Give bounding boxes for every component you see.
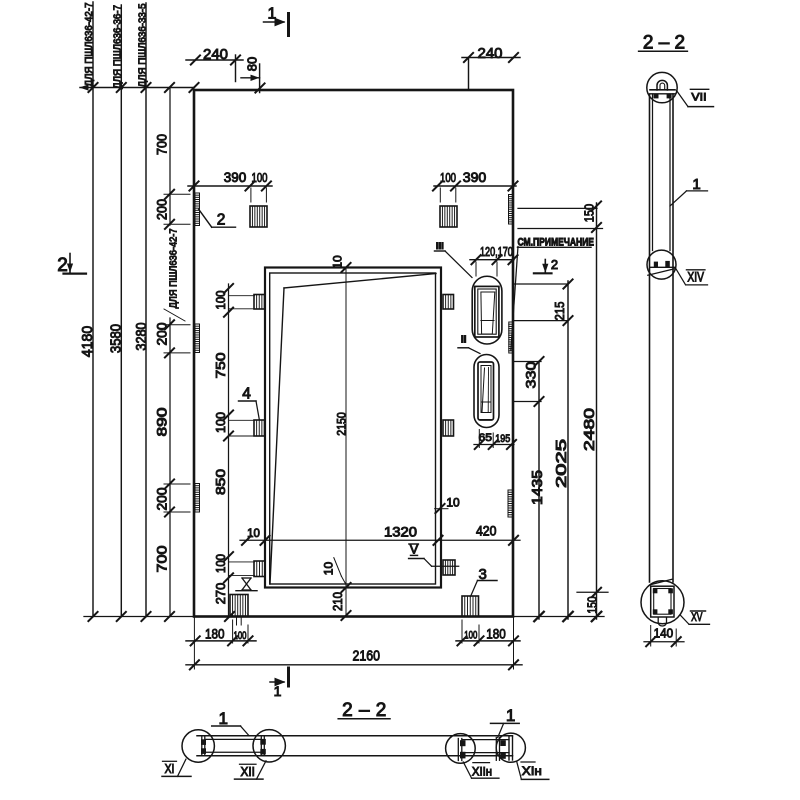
svg-text:390: 390 <box>224 169 247 185</box>
svg-text:330: 330 <box>523 361 539 388</box>
svg-text:65: 65 <box>479 432 493 444</box>
svg-text:140: 140 <box>654 626 674 641</box>
svg-text:240: 240 <box>477 45 502 62</box>
svg-text:120,170: 120,170 <box>480 245 513 259</box>
svg-text:210: 210 <box>330 592 345 611</box>
svg-text:200: 200 <box>155 199 170 220</box>
svg-text:195: 195 <box>495 433 510 445</box>
svg-text:700: 700 <box>155 134 170 155</box>
svg-text:2160: 2160 <box>353 649 381 665</box>
svg-text:1: 1 <box>218 709 227 728</box>
svg-text:200: 200 <box>155 323 170 346</box>
svg-text:4: 4 <box>242 386 251 403</box>
svg-text:10: 10 <box>247 528 260 540</box>
svg-text:2: 2 <box>551 257 558 272</box>
svg-text:XIн: XIн <box>522 764 542 778</box>
svg-text:3580: 3580 <box>109 324 125 353</box>
svg-text:100: 100 <box>234 630 247 642</box>
svg-text:2150: 2150 <box>335 412 349 436</box>
svg-text:XV: XV <box>691 610 702 624</box>
svg-text:3280: 3280 <box>134 322 150 350</box>
svg-text:10: 10 <box>446 496 460 510</box>
svg-text:270: 270 <box>213 583 228 605</box>
svg-text:150: 150 <box>582 204 597 222</box>
svg-text:2 – 2: 2 – 2 <box>643 32 685 53</box>
svg-text:СМ.ПРИМЕЧАНИЕ: СМ.ПРИМЕЧАНИЕ <box>518 236 595 248</box>
svg-text:180: 180 <box>486 626 506 642</box>
svg-text:ДЛЯ ПШЛ636-33-5: ДЛЯ ПШЛ636-33-5 <box>138 3 149 87</box>
svg-text:200: 200 <box>155 488 170 511</box>
svg-text:750: 750 <box>213 353 228 379</box>
svg-text:100: 100 <box>213 412 228 433</box>
svg-text:4180: 4180 <box>80 326 96 358</box>
svg-text:180: 180 <box>205 626 225 642</box>
svg-text:390: 390 <box>463 169 487 185</box>
svg-text:240: 240 <box>203 46 228 63</box>
svg-text:700: 700 <box>155 546 170 573</box>
svg-text:215: 215 <box>552 302 567 321</box>
svg-text:XIV: XIV <box>687 270 704 285</box>
svg-text:VII: VII <box>691 92 706 104</box>
svg-text:2 – 2: 2 – 2 <box>342 700 387 721</box>
svg-text:100: 100 <box>252 171 268 185</box>
svg-text:2025: 2025 <box>554 439 570 488</box>
svg-text:100: 100 <box>464 630 477 642</box>
svg-text:80: 80 <box>245 57 260 71</box>
svg-text:100: 100 <box>440 171 456 185</box>
svg-text:2480: 2480 <box>582 408 598 451</box>
svg-text:ДЛЯ ПШЛ636-42-7: ДЛЯ ПШЛ636-42-7 <box>84 2 95 86</box>
svg-text:1: 1 <box>506 706 515 725</box>
svg-text:420: 420 <box>476 524 497 539</box>
svg-text:10: 10 <box>322 562 336 576</box>
svg-text:ДЛЯ ПШЛ636-42-7: ДЛЯ ПШЛ636-42-7 <box>169 229 180 309</box>
svg-text:2: 2 <box>217 212 226 229</box>
svg-text:1435: 1435 <box>530 470 546 505</box>
svg-text:890: 890 <box>155 408 170 437</box>
svg-text:ДЛЯ ПШЛ636-36-7: ДЛЯ ПШЛ636-36-7 <box>113 5 124 89</box>
svg-text:10: 10 <box>331 255 345 269</box>
svg-text:1320: 1320 <box>384 525 417 540</box>
svg-text:XII: XII <box>241 765 255 779</box>
svg-text:850: 850 <box>213 469 228 495</box>
svg-text:II: II <box>461 335 467 346</box>
svg-text:100: 100 <box>213 554 228 573</box>
svg-text:XI: XI <box>165 762 175 776</box>
svg-text:150: 150 <box>585 596 600 613</box>
svg-text:100: 100 <box>213 291 228 310</box>
svg-text:XIIн: XIIн <box>472 765 492 779</box>
